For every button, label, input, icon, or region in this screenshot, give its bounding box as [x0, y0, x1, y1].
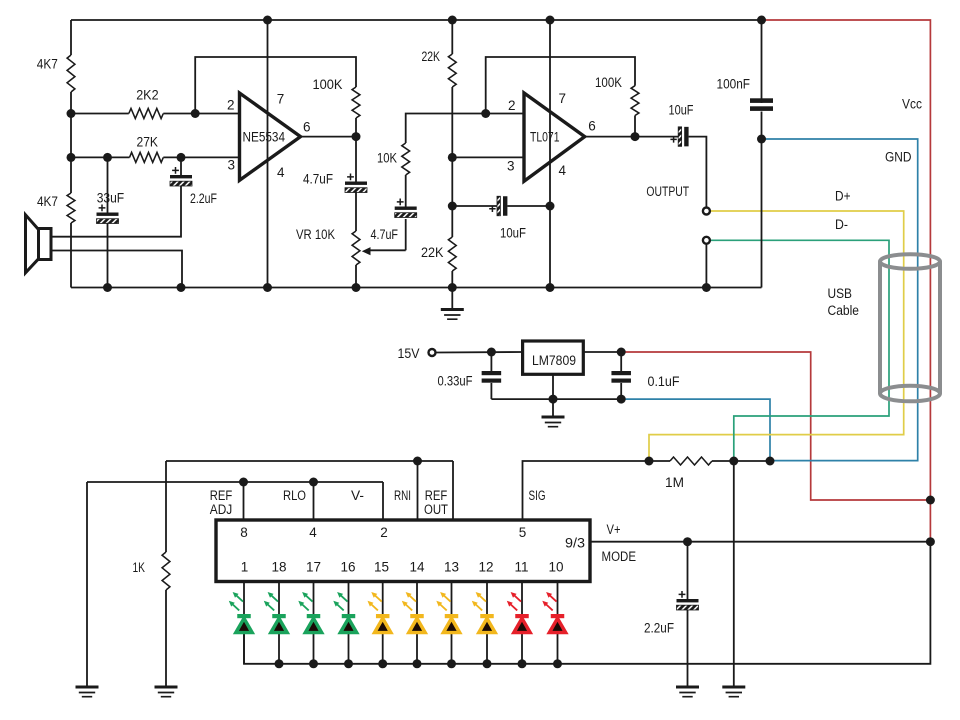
wire RLO pin	[313, 482, 315, 520]
node Vcc red junction	[926, 496, 935, 505]
node GND net	[757, 135, 766, 144]
capacitor C10 2.2uF	[677, 599, 699, 602]
svg-text:NE5534: NE5534	[243, 129, 286, 144]
wire GND (blue)	[621, 139, 918, 461]
capacitor C8 0.33uF	[482, 371, 502, 375]
wire 100nF lower lead	[761, 112, 763, 140]
potentiometer VR1 10K track	[352, 231, 360, 265]
wire 10K to TL071 pin 2	[406, 114, 524, 144]
svg-text:V+: V+	[607, 522, 621, 537]
wire TL071 pin7 supply	[549, 20, 551, 93]
wire Vcc (red) top rail to USB	[762, 20, 931, 500]
op-amp U1 NE5534 triangle	[240, 93, 301, 180]
wire 0.33uF lower lead	[490, 383, 492, 399]
wire LED2 green anode lead	[278, 633, 280, 664]
wire regulator GND pin	[552, 374, 554, 399]
wire 2.2uF upper lead	[180, 157, 182, 175]
wire LED4 green cathode lead	[348, 582, 350, 615]
wire 4.7uF upper lead	[355, 137, 357, 182]
ground symbol regulator	[552, 399, 554, 415]
node V+ supply	[926, 537, 935, 546]
resistor R9 22K lower	[448, 237, 456, 271]
svg-text:11: 11	[514, 560, 528, 575]
svg-text:Cable: Cable	[828, 303, 860, 318]
LED9 red	[517, 621, 528, 632]
resistor R1 4K7	[67, 55, 75, 92]
wire LED8 yellow anode lead	[486, 633, 488, 664]
wire regulator output	[583, 351, 621, 353]
VR1 wiper arrowhead	[362, 247, 371, 255]
wire V- pin	[382, 482, 384, 520]
node LED8 yellow bus junction	[483, 659, 492, 668]
LED10 red	[552, 621, 563, 632]
wire 0.1uF lower lead	[620, 383, 622, 399]
LED7 yellow	[446, 621, 457, 632]
svg-text:5: 5	[519, 525, 527, 540]
svg-text:REF: REF	[210, 488, 233, 503]
svg-text:0.1uF: 0.1uF	[648, 374, 680, 389]
node 2.2uF tap	[177, 153, 186, 162]
svg-text:VR 10K: VR 10K	[296, 227, 335, 242]
node B	[67, 153, 76, 162]
node TL071 output	[631, 132, 640, 141]
node VR1 ground	[352, 283, 361, 292]
svg-text:7: 7	[277, 92, 285, 107]
capacitor C4 4.7uF	[395, 207, 417, 210]
wire MODE/V+ line	[590, 541, 930, 543]
capacitor C9 0.1uF	[611, 371, 631, 375]
node divider ground	[448, 283, 457, 292]
svg-text:2.2uF: 2.2uF	[190, 191, 217, 206]
resistor R3 2K2	[129, 109, 164, 119]
svg-text:3: 3	[228, 157, 236, 172]
svg-text:D+: D+	[835, 189, 851, 204]
resistor R4 100K feedback	[352, 87, 360, 118]
wire R5 to NE5534 pin 3	[163, 156, 239, 158]
wire node B to R2	[70, 157, 72, 193]
USB cable shield cylinder	[880, 254, 940, 401]
node NE5534 pin4 ground	[263, 283, 272, 292]
svg-text:6: 6	[303, 120, 311, 135]
wire NE5534 output	[301, 136, 357, 138]
wire LED7 yellow anode lead	[451, 633, 453, 664]
wire REF ADJ pin	[243, 482, 245, 520]
svg-text:12: 12	[478, 560, 493, 575]
node 0.1uF ground	[617, 395, 626, 404]
svg-text:ADJ: ADJ	[210, 502, 233, 517]
wire LED4 green anode lead	[348, 633, 350, 664]
svg-text:REF: REF	[425, 488, 448, 503]
wire 10uF node to R9	[451, 206, 453, 237]
output terminal D+ side	[703, 208, 710, 215]
svg-text:4K7: 4K7	[37, 194, 58, 209]
node regulator ground	[549, 395, 558, 404]
wire LED5 yellow anode lead	[382, 633, 384, 664]
svg-text:OUT: OUT	[424, 502, 448, 517]
svg-text:1K: 1K	[133, 560, 146, 575]
ground symbol divider	[451, 288, 453, 309]
wire NE5534 feedback loop	[195, 57, 356, 114]
wire speaker - to ground bus	[52, 251, 183, 288]
wire output ground stub	[705, 244, 707, 287]
wire SIG net to ground	[733, 461, 735, 686]
ground symbol V-	[76, 686, 99, 689]
wire LED1 green anode lead	[243, 633, 245, 664]
svg-text:4: 4	[309, 525, 317, 540]
node speaker return	[177, 283, 186, 292]
output terminal ground side	[703, 237, 710, 244]
resistor R8 22K	[448, 54, 456, 87]
svg-text:SIG: SIG	[529, 488, 546, 503]
LED2 green	[274, 621, 285, 632]
svg-text:2: 2	[380, 525, 388, 540]
wire LED6 yellow cathode lead	[416, 582, 418, 615]
wire 1M right stub	[712, 460, 734, 462]
wire 0.1uF upper lead	[620, 352, 622, 371]
node RNI tap	[413, 457, 422, 466]
resistor R2 4K7	[67, 193, 75, 223]
LED6 yellow	[412, 621, 423, 632]
wire R8 to pin3 node	[451, 87, 453, 157]
svg-text:16: 16	[340, 560, 355, 575]
resistor R7 100K feedback	[631, 86, 639, 116]
node RLO tap	[309, 478, 318, 487]
svg-text:27K: 27K	[137, 134, 159, 149]
ground symbol 2.2uF	[676, 686, 699, 689]
wire 10uF(2) left lead	[452, 205, 497, 207]
wire 2.2uF(2) upper lead	[687, 542, 689, 599]
wire 33uF lower lead	[107, 223, 109, 288]
node TL071 pin4 ground	[546, 283, 555, 292]
resistor R5 27K	[130, 152, 164, 162]
wire 15V to regulator	[436, 351, 523, 354]
svg-text:RNI: RNI	[394, 488, 411, 503]
svg-text:10uF: 10uF	[669, 102, 694, 117]
wire regulator ground rail	[491, 398, 621, 400]
capacitor C2 2.2uF	[170, 175, 192, 178]
wire 1K upper lead	[165, 461, 167, 552]
node Vcc rail end	[757, 16, 766, 25]
wire 4.7uF(2) lower lead	[405, 219, 407, 250]
wire V+ top rail	[71, 19, 762, 21]
wire 4.7uF to VR1	[355, 192, 357, 231]
wire LED1 green cathode lead	[243, 582, 245, 615]
svg-text:6: 6	[588, 119, 596, 134]
wire 100nF upper lead	[761, 20, 763, 103]
svg-text:Vcc: Vcc	[902, 97, 922, 112]
wire TL071 output	[585, 136, 679, 138]
wire NE5534 pin7-pin4 through	[267, 93, 269, 180]
wire RNI pin	[417, 461, 419, 520]
node 33uF ground	[103, 283, 112, 292]
wire LED2 green cathode lead	[278, 582, 280, 615]
svg-text:9/3: 9/3	[565, 536, 585, 551]
wire V- line (wire B)	[87, 481, 383, 483]
wire LED8 yellow cathode lead	[486, 582, 488, 615]
node 10uF right	[546, 202, 555, 211]
svg-text:100nF: 100nF	[717, 76, 751, 91]
svg-text:10: 10	[548, 560, 563, 575]
wire LED10 red anode lead	[557, 633, 559, 664]
node regulator output	[617, 348, 626, 357]
svg-text:RLO: RLO	[283, 488, 306, 503]
svg-text:7: 7	[559, 91, 567, 106]
svg-text:8: 8	[240, 525, 248, 540]
wire SIG pin	[523, 461, 650, 520]
node 2.2uF V+ tap	[683, 537, 692, 546]
wire TL071 pin 3	[452, 156, 524, 158]
wire node A to R3	[71, 113, 129, 115]
svg-text:4K7: 4K7	[37, 56, 58, 71]
wire VR1 wiper arm	[370, 249, 406, 251]
svg-text:0.33uF: 0.33uF	[438, 374, 473, 389]
wire node B to R5	[71, 156, 130, 158]
resistor R11 1M	[670, 457, 712, 465]
LED3 green	[308, 621, 319, 632]
wire LED9 red cathode lead	[521, 582, 523, 615]
node 22K V+ tap	[448, 16, 457, 25]
wire 1M left stub	[649, 460, 670, 462]
wire 22K upper supply	[451, 20, 453, 54]
regulator U3 LM7809 body	[523, 341, 584, 374]
wire 1K to ground	[165, 590, 167, 686]
wire R7 to output node	[634, 116, 636, 137]
svg-text:LM7809: LM7809	[532, 353, 576, 368]
svg-text:2K2: 2K2	[136, 88, 158, 103]
resistor R10 1K	[162, 552, 170, 590]
wire LED6 yellow anode lead	[416, 633, 418, 664]
svg-text:4.7uF: 4.7uF	[371, 227, 399, 242]
svg-text:USB: USB	[828, 286, 853, 301]
node NE5534 V+ rail tap	[263, 16, 272, 25]
node NE5534 output	[352, 132, 361, 141]
wire 10K to 4.7uF(2)	[405, 175, 407, 207]
wire TL071 pin7-pin4 through	[549, 93, 551, 206]
LED1 green	[239, 621, 250, 632]
svg-text:18: 18	[271, 560, 286, 575]
node LED6 yellow bus junction	[413, 659, 422, 668]
node 1M / D- junction	[729, 457, 738, 466]
ground symbol 1K	[155, 686, 178, 689]
wire LED3 green cathode lead	[313, 582, 315, 615]
wire D- (green)	[710, 240, 889, 461]
svg-text:100K: 100K	[313, 77, 343, 92]
svg-text:4: 4	[559, 163, 567, 178]
node 33uF tap	[103, 153, 112, 162]
wire REF line (wire A)	[166, 460, 453, 462]
svg-text:4.7uF: 4.7uF	[303, 172, 333, 187]
wire left supply branch	[70, 20, 72, 55]
svg-text:1: 1	[241, 560, 249, 575]
svg-text:4: 4	[277, 165, 285, 180]
node LED4 green bus junction	[344, 659, 353, 668]
node LED9 red bus junction	[518, 659, 527, 668]
wire NE5534 pin4 to ground bus	[267, 180, 269, 288]
svg-text:22K: 22K	[422, 49, 441, 64]
svg-text:10K: 10K	[377, 151, 397, 166]
svg-text:13: 13	[444, 560, 459, 575]
wire R3 to NE5534 pin 2	[163, 113, 239, 115]
ground bus wire	[71, 287, 762, 289]
wire D+ (yellow)	[649, 211, 904, 461]
wire LED anode bus	[244, 542, 930, 664]
node A	[67, 109, 76, 118]
wire 2.2uF(2) to ground	[687, 610, 689, 686]
wire R2 to ground bus	[70, 223, 72, 288]
svg-text:100K: 100K	[595, 75, 622, 90]
LED4 green	[343, 621, 354, 632]
node REF ADJ tap	[239, 478, 248, 487]
svg-text:14: 14	[409, 560, 425, 575]
wire 10uF(2) right lead	[507, 205, 550, 207]
wire TL071 feedback loop	[486, 57, 635, 114]
capacitor C1 33uF	[97, 213, 119, 216]
wire LED3 green anode lead	[313, 633, 315, 664]
capacitor C7 100nF	[750, 98, 773, 103]
node LED3 green bus junction	[309, 659, 318, 668]
capacitor C3 4.7uF	[345, 182, 367, 185]
wire pin3 node to 10uF node	[451, 157, 453, 206]
ground symbol SIG net	[722, 686, 745, 689]
node LED7 yellow bus junction	[447, 659, 456, 668]
node LED5 yellow bus junction	[378, 659, 387, 668]
op-amp U2 TL071 triangle	[524, 93, 585, 181]
node LED10 red bus junction	[553, 659, 562, 668]
wire LED10 red cathode lead	[557, 582, 559, 615]
node LED2 green bus junction	[275, 659, 284, 668]
svg-text:15V: 15V	[398, 346, 420, 361]
wire VR1 to ground bus	[355, 265, 357, 288]
wire V- to ground	[86, 482, 88, 686]
LED5 yellow	[377, 621, 388, 632]
svg-text:OUTPUT: OUTPUT	[646, 184, 689, 199]
node TL071 inverting input	[481, 109, 490, 118]
node GND return junction	[766, 457, 775, 466]
wire ground bus riser to GND node	[761, 139, 763, 288]
wire Vcc (red) junction to V+ node	[929, 500, 931, 542]
svg-text:10uF: 10uF	[500, 225, 526, 240]
wire Vcc (red) regulator output to junction	[621, 352, 930, 500]
svg-text:15: 15	[374, 560, 389, 575]
terminal 15V input	[429, 349, 436, 356]
node output ground	[702, 283, 711, 292]
wire LED9 red anode lead	[521, 633, 523, 664]
wire TL071 pin4 to ground bus	[549, 206, 551, 288]
wire LED7 yellow cathode lead	[451, 582, 453, 615]
node NE5534 inverting input	[191, 109, 200, 118]
svg-text:17: 17	[306, 560, 321, 575]
LED8 yellow	[482, 621, 493, 632]
wire node A to node B	[70, 114, 72, 158]
svg-text:GND: GND	[885, 150, 912, 165]
svg-text:D-: D-	[835, 217, 848, 232]
node 0.33uF input tap	[487, 348, 496, 357]
wire LED5 yellow cathode lead	[382, 582, 384, 615]
speaker / microphone symbol	[26, 215, 52, 273]
wire junction link	[734, 460, 770, 462]
svg-text:33uF: 33uF	[97, 191, 125, 206]
wire 10uF(1) to output corner	[689, 137, 707, 207]
wire NE5534 pin7 supply	[267, 20, 269, 93]
svg-text:MODE: MODE	[602, 549, 637, 564]
node SIG / D+ junction	[645, 457, 654, 466]
wire 2.2uF lower lead to speaker +	[52, 186, 182, 237]
node TL071 non-inverting input	[448, 153, 457, 162]
node 10uF left	[448, 202, 457, 211]
capacitor C6 10uF output coupling	[678, 127, 681, 147]
svg-text:22K: 22K	[421, 245, 444, 260]
svg-text:TL071: TL071	[530, 130, 560, 145]
svg-text:2: 2	[227, 97, 235, 112]
svg-text:3: 3	[507, 159, 515, 174]
resistor R6 10K	[402, 143, 410, 175]
wire R9 to ground bus	[451, 271, 453, 288]
node TL071 V+ rail tap	[546, 16, 555, 25]
capacitor C5 10uF bypass	[497, 196, 500, 216]
svg-text:V-: V-	[351, 488, 364, 503]
wire REF OUT pin	[452, 461, 454, 520]
svg-text:2: 2	[508, 98, 516, 113]
wire 0.33uF upper lead	[490, 352, 492, 371]
wire R4 to output node	[355, 118, 357, 137]
wire R1 to node A	[70, 92, 72, 114]
svg-text:2.2uF: 2.2uF	[644, 621, 674, 636]
svg-text:1M: 1M	[665, 475, 684, 490]
IC U4 LM3915 body	[216, 520, 590, 582]
wire 33uF upper lead	[107, 157, 109, 212]
